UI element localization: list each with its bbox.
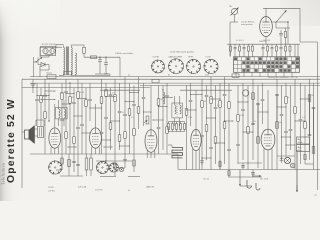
wire xyxy=(277,106,286,108)
tube socket view UCH81 xyxy=(152,60,165,73)
component string xyxy=(65,79,67,91)
voltage selector plate xyxy=(40,47,55,56)
component string xyxy=(247,85,249,126)
capacitor C4b xyxy=(243,44,245,47)
wire xyxy=(74,115,82,117)
wire xyxy=(150,85,152,129)
wire xyxy=(276,27,290,29)
component string xyxy=(186,85,188,108)
component string xyxy=(138,77,140,107)
resistor R15 on bus xyxy=(232,74,239,77)
component string xyxy=(294,79,296,107)
wire xyxy=(294,44,296,56)
component string xyxy=(215,85,217,107)
dial lamp L1 xyxy=(284,157,290,163)
dial lamp L2 xyxy=(291,163,296,168)
component string xyxy=(252,170,254,178)
component string xyxy=(61,83,63,93)
wire xyxy=(153,119,163,121)
IF pentode UF89 V2 xyxy=(90,128,102,148)
meander wire loop xyxy=(172,148,183,158)
IF transformer can II xyxy=(172,103,183,118)
component string xyxy=(124,150,126,168)
wire xyxy=(259,72,261,76)
pilot lamp xyxy=(119,167,123,171)
component string xyxy=(68,154,70,176)
component string xyxy=(119,83,121,111)
fuse holder Si1 xyxy=(43,48,48,53)
output transformer xyxy=(38,127,44,138)
capacitor C4a xyxy=(234,44,236,47)
component string xyxy=(313,83,315,147)
wire xyxy=(171,145,173,148)
component string xyxy=(124,77,126,115)
output pentode UL84 V5 xyxy=(261,129,275,150)
wire xyxy=(243,72,245,76)
component string xyxy=(81,83,83,124)
wire xyxy=(68,146,76,148)
resistor R2 xyxy=(285,28,287,31)
wire xyxy=(54,104,56,128)
wire xyxy=(106,96,115,98)
wire xyxy=(174,96,176,105)
wire xyxy=(21,79,23,188)
wire xyxy=(74,74,76,75)
wire xyxy=(22,131,25,133)
terminal box xyxy=(64,71,72,75)
component string xyxy=(281,156,283,163)
electrolytic C1 xyxy=(99,57,101,59)
component string xyxy=(228,83,230,102)
wire xyxy=(227,43,300,45)
component string xyxy=(105,150,107,161)
wire xyxy=(225,120,234,122)
resistor R4 xyxy=(239,44,241,46)
capacitor C5b xyxy=(271,44,273,47)
component string xyxy=(110,88,112,95)
resistor R5 xyxy=(248,44,250,46)
wire xyxy=(41,99,55,101)
socket small view xyxy=(97,162,109,174)
wire xyxy=(187,109,197,111)
wire xyxy=(111,120,120,122)
component string xyxy=(114,150,116,176)
wire xyxy=(33,57,35,77)
component string xyxy=(143,83,145,97)
component string xyxy=(201,79,203,101)
wire xyxy=(238,101,248,103)
resistor R14 on bus xyxy=(152,79,159,82)
wire xyxy=(163,97,172,99)
wire xyxy=(317,42,319,190)
component string xyxy=(290,85,292,129)
bus wire top xyxy=(30,76,320,78)
HT lead xyxy=(296,150,298,190)
wire xyxy=(191,94,203,96)
wire xyxy=(56,44,64,46)
component string xyxy=(166,83,168,95)
rectifier socket view xyxy=(49,161,62,174)
bus wire 4 xyxy=(140,84,320,86)
wire xyxy=(35,128,38,130)
rectifier tube wire xyxy=(83,45,85,47)
AF driver V4 xyxy=(191,129,201,150)
component string xyxy=(224,77,226,95)
hook wire xyxy=(247,180,251,188)
coupling coil xyxy=(163,92,165,104)
bus wire bottom right xyxy=(178,169,320,171)
component string xyxy=(242,163,244,170)
wire xyxy=(78,98,86,100)
component string xyxy=(48,120,49,121)
wire xyxy=(40,69,49,71)
wire xyxy=(90,107,102,109)
resistor R11 xyxy=(276,44,278,46)
wire xyxy=(234,15,236,22)
wire xyxy=(46,54,53,56)
capacitor C3 xyxy=(280,30,282,33)
component string xyxy=(105,83,107,90)
resistor group xyxy=(167,124,169,130)
chassis bus xyxy=(96,160,132,162)
wire xyxy=(95,104,97,128)
wire xyxy=(243,131,253,133)
capacitor C5c xyxy=(280,44,282,47)
wire with arrow 2 xyxy=(252,175,261,177)
wire xyxy=(258,111,268,113)
wire xyxy=(282,136,291,138)
wire xyxy=(211,98,220,100)
capacitor C5a xyxy=(262,44,264,47)
component string xyxy=(101,79,103,97)
component string xyxy=(237,85,239,114)
wire xyxy=(70,74,72,76)
wire xyxy=(235,72,237,76)
wire xyxy=(267,72,269,76)
component string xyxy=(129,83,131,109)
wire xyxy=(144,111,152,113)
component string xyxy=(162,89,163,90)
component string xyxy=(40,88,42,96)
phono jack TA xyxy=(231,8,237,14)
resistor R3 xyxy=(230,44,232,46)
NTC resistor xyxy=(91,56,97,59)
selenium rectifier Gl xyxy=(41,63,45,67)
wire xyxy=(82,132,90,134)
tuning indicator EM71 xyxy=(260,17,273,37)
resistor R1 xyxy=(83,47,86,53)
electrolytic C2 xyxy=(105,57,107,62)
resistor pair xyxy=(85,158,88,170)
wire xyxy=(286,144,295,146)
wire xyxy=(66,93,74,95)
component string xyxy=(44,79,46,95)
wire xyxy=(177,154,179,170)
potentiometer P1 xyxy=(146,116,149,124)
wire xyxy=(238,162,262,164)
wire with arrow xyxy=(239,170,241,186)
component string xyxy=(276,79,278,122)
mains switch S xyxy=(36,58,42,63)
hook wire 2 xyxy=(256,183,260,190)
wire xyxy=(83,53,85,57)
component string xyxy=(190,83,192,100)
component string xyxy=(309,79,311,134)
wire xyxy=(195,90,197,129)
resistor R13 on bus xyxy=(47,75,56,79)
oscillator coil can xyxy=(243,90,249,96)
component string xyxy=(257,85,259,136)
tube socket view UF89 xyxy=(169,59,184,74)
bus segment xyxy=(100,89,140,91)
wire xyxy=(60,175,83,177)
component string xyxy=(61,154,63,170)
component string xyxy=(201,158,203,166)
speaker xyxy=(25,130,30,139)
component string xyxy=(73,154,75,172)
component string xyxy=(262,83,264,99)
wire xyxy=(104,146,112,148)
wire xyxy=(45,90,55,92)
wire xyxy=(263,7,300,9)
antenna input xyxy=(32,79,34,93)
wire xyxy=(95,73,110,75)
wire xyxy=(40,46,62,48)
tube socket view UL84 xyxy=(204,60,218,74)
wire xyxy=(295,120,305,122)
wire xyxy=(291,72,293,76)
bus wire 3 xyxy=(30,82,320,84)
wire xyxy=(202,157,211,159)
mains transformer Tr heater winding xyxy=(75,53,76,75)
component string xyxy=(69,83,71,97)
socket small view 2 xyxy=(109,163,118,172)
component string xyxy=(89,83,91,99)
component string xyxy=(304,150,306,164)
component string xyxy=(114,79,116,95)
bus wire 2 xyxy=(22,78,320,80)
alignment table xyxy=(297,137,310,144)
resistor R6 xyxy=(252,44,254,46)
bus wire 5 xyxy=(22,87,150,89)
component string xyxy=(133,85,135,104)
component string xyxy=(73,88,75,103)
triode-heptode UCH81 V1 xyxy=(49,128,61,148)
wire xyxy=(58,100,60,109)
wire xyxy=(301,98,310,100)
component string xyxy=(36,83,38,99)
mains transformer Tr core xyxy=(65,47,67,75)
wire xyxy=(130,92,139,94)
mains transformer Tr secondary xyxy=(71,48,72,75)
component string xyxy=(77,79,79,92)
push-button switch bank xyxy=(234,57,300,73)
demod/AF UABC80 V3 xyxy=(145,130,157,153)
resistor R12 xyxy=(285,44,287,46)
component string xyxy=(285,83,287,97)
fuse holder Si2 xyxy=(50,48,55,53)
component string xyxy=(133,154,135,172)
component string xyxy=(158,85,160,98)
wire xyxy=(125,101,134,103)
resistor R10 xyxy=(267,44,269,46)
bus wire bottom left xyxy=(30,153,178,155)
component string xyxy=(304,85,306,121)
wire xyxy=(267,90,269,129)
wire xyxy=(265,37,267,45)
component string xyxy=(186,154,188,170)
component string xyxy=(77,154,79,176)
component string xyxy=(219,83,221,101)
wire xyxy=(216,142,225,144)
wire xyxy=(62,103,70,105)
component string xyxy=(242,83,244,109)
wire xyxy=(287,22,289,44)
mains transformer Tr primary xyxy=(64,48,65,75)
resistor R12a xyxy=(289,44,291,46)
dial pointer line xyxy=(276,14,284,23)
wire xyxy=(70,45,72,48)
wire xyxy=(120,145,130,147)
wire xyxy=(277,155,295,157)
IF transformer can I xyxy=(56,107,68,119)
component string xyxy=(206,85,208,95)
tube socket view UABC80 xyxy=(187,60,201,74)
component string xyxy=(85,88,87,100)
wire xyxy=(207,117,216,119)
wire xyxy=(128,176,140,178)
component string xyxy=(228,170,230,178)
component string xyxy=(300,83,302,119)
wire xyxy=(251,72,253,76)
wire xyxy=(275,72,277,76)
component string xyxy=(219,160,221,170)
wire xyxy=(102,139,111,141)
component string xyxy=(252,79,254,123)
component string xyxy=(210,77,212,97)
wire xyxy=(283,72,285,76)
wire xyxy=(37,95,49,97)
wire xyxy=(159,106,168,108)
component string xyxy=(281,85,283,114)
